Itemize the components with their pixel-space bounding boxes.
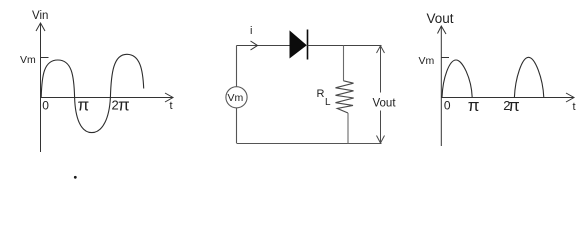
node Vm tick (left graph) bbox=[40, 57, 49, 59]
wire rectified hump 1 bbox=[442, 60, 472, 98]
node Vin-graph x-axis bbox=[40, 93, 173, 102]
node Vout measurement arrow bbox=[377, 46, 385, 144]
svg-text:0: 0 bbox=[42, 98, 49, 112]
wire bottom wire bbox=[237, 143, 382, 145]
node Vout-graph y-axis bbox=[438, 26, 447, 146]
svg-text:Vm: Vm bbox=[228, 92, 244, 104]
wire resistor top lead bbox=[343, 46, 345, 81]
wire top wire left segment bbox=[237, 45, 291, 47]
node stray dot bbox=[74, 176, 77, 179]
svg-text:π: π bbox=[78, 96, 90, 115]
diode D1 cathode bar bbox=[307, 30, 309, 60]
diode D1 triangle bbox=[290, 32, 306, 58]
svg-text:R: R bbox=[317, 88, 325, 100]
node current arrow i bbox=[251, 41, 258, 50]
svg-text:Vout: Vout bbox=[427, 11, 454, 26]
svg-text:t: t bbox=[170, 100, 173, 112]
svg-text:i: i bbox=[250, 25, 252, 37]
svg-text:π: π bbox=[468, 96, 480, 115]
svg-text:Vm: Vm bbox=[419, 55, 435, 67]
wire input sine waveform bbox=[41, 54, 144, 132]
svg-text:t: t bbox=[573, 101, 576, 113]
svg-text:Vin: Vin bbox=[32, 10, 48, 22]
svg-text:π: π bbox=[118, 96, 130, 115]
wire resistor bottom lead bbox=[347, 113, 349, 144]
wire circuit left vertical (source branch) bbox=[236, 46, 238, 87]
svg-text:0: 0 bbox=[444, 99, 451, 113]
resistor RL zigzag bbox=[336, 81, 354, 113]
node Vin-graph y-axis bbox=[36, 23, 45, 152]
wire top wire right segment bbox=[308, 45, 382, 47]
svg-text:Vout: Vout bbox=[373, 98, 397, 110]
svg-text:L: L bbox=[325, 97, 331, 108]
node Vout-graph x-axis bbox=[441, 93, 574, 102]
node Vm tick (right graph) bbox=[441, 57, 449, 59]
wire rectified hump 2 bbox=[514, 57, 543, 97]
svg-text:π: π bbox=[508, 96, 520, 115]
source Vm (circle) bbox=[226, 87, 247, 108]
svg-text:Vm: Vm bbox=[20, 54, 36, 66]
